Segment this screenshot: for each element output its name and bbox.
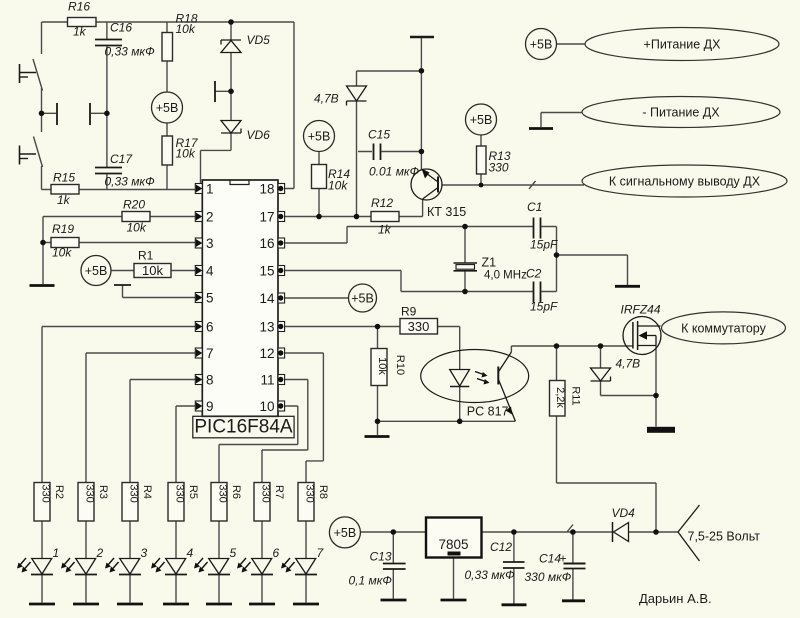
svg-text:4,0 MHz: 4,0 MHz (484, 270, 527, 282)
svg-text:10k: 10k (176, 22, 196, 36)
svg-text:6: 6 (206, 319, 214, 334)
svg-text:330: 330 (40, 484, 52, 502)
svg-text:1k: 1k (57, 193, 71, 207)
svg-text:0,33 мкФ: 0,33 мкФ (105, 175, 156, 189)
svg-text:4: 4 (187, 546, 194, 560)
svg-text:+5В: +5В (156, 101, 179, 115)
svg-text:330: 330 (260, 484, 272, 502)
svg-text:Z1: Z1 (482, 256, 497, 270)
svg-text:C2: C2 (526, 267, 542, 281)
svg-text:7,5-25 Вольт: 7,5-25 Вольт (688, 530, 761, 544)
svg-text:10k: 10k (328, 179, 348, 193)
svg-text:10k: 10k (142, 263, 163, 278)
svg-text:3: 3 (206, 236, 214, 251)
svg-text:C1: C1 (527, 200, 542, 214)
svg-text:2,2k: 2,2k (554, 387, 566, 408)
svg-text:R15: R15 (53, 171, 75, 185)
svg-text:C15: C15 (368, 128, 390, 142)
svg-text:14: 14 (259, 291, 275, 306)
svg-text:17: 17 (259, 209, 274, 224)
svg-text:C13: C13 (370, 550, 392, 564)
svg-text:C16: C16 (110, 21, 132, 35)
svg-text:7805: 7805 (438, 537, 468, 552)
svg-text:18: 18 (259, 181, 274, 196)
svg-text:IRFZ44: IRFZ44 (621, 303, 661, 317)
svg-text:1k: 1k (378, 223, 392, 237)
svg-text:C14: C14 (539, 552, 561, 566)
svg-text:VD6: VD6 (247, 128, 271, 142)
svg-text:+5В: +5В (334, 526, 357, 540)
svg-text:+5В: +5В (351, 292, 374, 306)
svg-text:R8: R8 (317, 485, 329, 499)
svg-text:+5В: +5В (530, 38, 553, 52)
svg-text:R7: R7 (273, 485, 285, 499)
svg-text:C12: C12 (490, 540, 512, 554)
svg-text:7: 7 (206, 346, 214, 361)
svg-text:КТ 315: КТ 315 (427, 205, 466, 219)
svg-text:R12: R12 (371, 196, 393, 210)
svg-text:C17: C17 (110, 152, 133, 166)
svg-text:0.01 мкФ: 0.01 мкФ (369, 165, 420, 179)
svg-text:13: 13 (259, 319, 274, 334)
svg-text:Дарьин А.В.: Дарьин А.В. (639, 591, 712, 606)
svg-text:8: 8 (206, 372, 214, 387)
svg-text:R19: R19 (52, 222, 74, 236)
svg-text:R3: R3 (97, 485, 109, 499)
svg-text:10: 10 (259, 399, 274, 414)
svg-text:4: 4 (206, 263, 214, 278)
svg-text:330: 330 (174, 484, 186, 502)
svg-text:0,33 мкФ: 0,33 мкФ (465, 568, 516, 582)
svg-text:11: 11 (260, 372, 274, 387)
svg-text:- Питание ДХ: - Питание ДХ (642, 106, 720, 120)
svg-text:330 мкФ: 330 мкФ (525, 570, 572, 584)
svg-text:PC 817: PC 817 (467, 405, 509, 419)
svg-text:10k: 10k (376, 357, 388, 375)
svg-text:R4: R4 (141, 485, 153, 499)
svg-text:+5В: +5В (85, 264, 108, 278)
svg-text:5: 5 (230, 546, 237, 560)
svg-text:4,7В: 4,7В (616, 357, 641, 371)
svg-text:2: 2 (96, 546, 104, 560)
svg-text:0,33 мкФ: 0,33 мкФ (105, 45, 156, 59)
svg-text:R11: R11 (570, 386, 582, 405)
svg-text:VD4: VD4 (612, 506, 636, 520)
svg-text:9: 9 (206, 399, 214, 414)
svg-text:330: 330 (489, 161, 509, 175)
svg-text:6: 6 (273, 546, 280, 560)
svg-text:5: 5 (206, 290, 214, 305)
svg-text:0,1 мкФ: 0,1 мкФ (349, 574, 393, 588)
svg-text:R16: R16 (68, 0, 90, 14)
svg-text:PIC16F84A: PIC16F84A (194, 417, 293, 438)
svg-text:VD5: VD5 (247, 33, 271, 47)
svg-text:R2: R2 (53, 485, 65, 499)
svg-text:330: 330 (304, 484, 316, 502)
svg-text:3: 3 (141, 546, 148, 560)
svg-text:330: 330 (408, 319, 430, 334)
svg-text:R5: R5 (187, 485, 199, 499)
svg-text:10k: 10k (52, 246, 72, 260)
svg-text:4,7В: 4,7В (314, 92, 339, 106)
svg-text:К коммутатору: К коммутатору (681, 322, 767, 336)
svg-text:330: 330 (84, 484, 96, 502)
svg-text:10k: 10k (176, 147, 196, 161)
svg-text:R10: R10 (394, 355, 406, 375)
svg-text:1k: 1k (73, 25, 87, 39)
svg-text:R9: R9 (401, 305, 417, 319)
svg-text:10k: 10k (127, 221, 147, 235)
svg-text:1: 1 (53, 546, 60, 560)
svg-text:15pF: 15pF (530, 300, 558, 314)
svg-text:R20: R20 (123, 198, 145, 212)
svg-text:+Питание ДХ: +Питание ДХ (644, 38, 722, 52)
svg-text:16: 16 (259, 236, 274, 251)
svg-text:330: 330 (217, 484, 229, 502)
svg-text:+5В: +5В (470, 113, 493, 127)
svg-text:+5В: +5В (308, 130, 331, 144)
svg-text:15: 15 (259, 263, 274, 278)
svg-text:330: 330 (128, 484, 140, 502)
svg-text:+: + (560, 552, 567, 566)
svg-text:15pF: 15pF (530, 238, 558, 252)
svg-text:R1: R1 (138, 249, 154, 263)
svg-text:К сигнальному выводу ДХ: К сигнальному выводу ДХ (609, 175, 761, 189)
svg-text:R6: R6 (230, 485, 242, 499)
svg-text:1: 1 (206, 181, 214, 196)
svg-text:12: 12 (259, 346, 274, 361)
svg-text:2: 2 (206, 209, 214, 224)
